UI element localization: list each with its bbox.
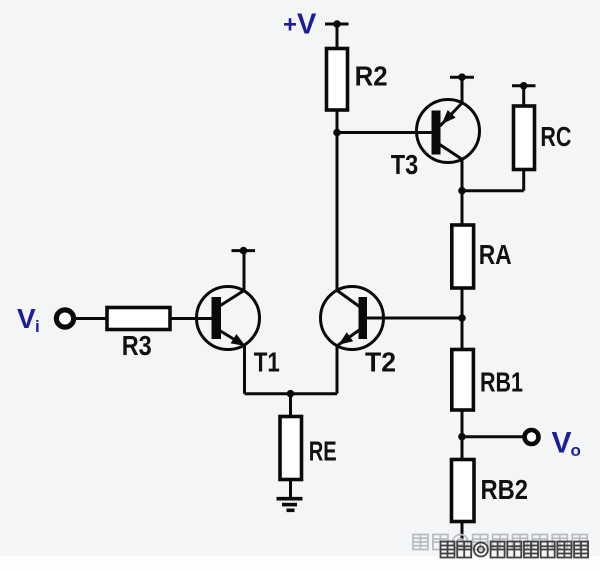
svg-text:V: V bbox=[552, 427, 572, 460]
wire RE bottom to ground bbox=[289, 480, 292, 499]
resistor R3 bbox=[107, 308, 170, 330]
svg-text:i: i bbox=[35, 317, 40, 336]
wire node E to RE top bbox=[289, 394, 292, 417]
wire RA bottom to node C bbox=[461, 288, 464, 318]
wire node A to T3 base bbox=[337, 131, 432, 134]
svg-text:RB2: RB2 bbox=[481, 474, 529, 505]
svg-text:R2: R2 bbox=[355, 61, 388, 92]
wire +V to R2 top bbox=[336, 24, 339, 49]
wire T3 emitter up to supply bbox=[461, 77, 464, 103]
wire RB2 bottom stub bbox=[461, 522, 464, 541]
wire RC bottom down bbox=[522, 170, 525, 191]
svg-text:V: V bbox=[297, 9, 317, 41]
wire emitter rail T1 to T2 bbox=[245, 392, 338, 395]
svg-text:o: o bbox=[571, 441, 581, 460]
svg-text:V: V bbox=[17, 303, 36, 334]
supply terminal bar above RC bbox=[512, 84, 536, 87]
node D junction dot (RB1 / RB2 / Vo) bbox=[458, 433, 466, 441]
transistor T2 (NPN, mirrored) bbox=[321, 287, 384, 350]
junction dot on T1 supply bar bbox=[240, 247, 248, 255]
svg-text:RA: RA bbox=[479, 239, 512, 270]
watermark front text (dark gray) bbox=[441, 542, 589, 558]
svg-text:T3: T3 bbox=[391, 149, 419, 180]
junction dot on +V bar bbox=[333, 20, 341, 28]
svg-text:RE: RE bbox=[309, 436, 337, 467]
svg-text:T2: T2 bbox=[365, 347, 396, 378]
supply terminal bar above T3 bbox=[450, 76, 474, 79]
wire Vi to R3 bbox=[76, 317, 107, 320]
svg-text:+: + bbox=[283, 12, 297, 39]
node A junction dot (R2 / T3 base / T2 collector) bbox=[333, 129, 341, 137]
wire node C to RB1 top bbox=[461, 318, 464, 350]
supply terminal bar above T1 bbox=[232, 249, 256, 252]
resistor RB1 bbox=[452, 350, 474, 411]
svg-text:T1: T1 bbox=[254, 346, 280, 377]
wire T3 collector down to node B bbox=[461, 159, 464, 190]
wire T2 emitter down bbox=[336, 346, 339, 394]
resistor RE bbox=[280, 417, 302, 480]
wire T1 emitter down bbox=[243, 346, 246, 394]
svg-text:RB1: RB1 bbox=[480, 366, 523, 397]
wire T1 collector up to supply bbox=[243, 251, 246, 291]
wire node D to Vo terminal bbox=[462, 435, 523, 438]
resistor R2 bbox=[327, 49, 348, 111]
wire R3 to T1 base bbox=[170, 317, 212, 320]
svg-text:RC: RC bbox=[540, 121, 571, 152]
Vi input terminal bbox=[56, 310, 73, 327]
resistor RB2 bbox=[452, 460, 475, 522]
wire T2 base to node C bbox=[367, 317, 462, 320]
wire R2 bottom to node A bbox=[336, 110, 339, 133]
wire RC bottom to node B bbox=[462, 189, 524, 192]
Vo output terminal bbox=[525, 430, 539, 444]
svg-text:R3: R3 bbox=[122, 330, 152, 361]
wire supply to RC top bbox=[522, 86, 525, 106]
ground bbox=[277, 499, 303, 511]
transistor T1 (NPN) bbox=[197, 287, 260, 350]
node B junction dot (T3 collector / RC / RA) bbox=[458, 187, 466, 195]
+V supply terminal bar bbox=[325, 23, 349, 26]
wire node A down to T2 collector bbox=[336, 133, 339, 291]
junction dot on T3 supply bar bbox=[458, 73, 466, 81]
resistor RC bbox=[514, 106, 535, 170]
watermark back text (light gray) bbox=[413, 535, 587, 550]
junction dot on RC supply bar bbox=[520, 82, 528, 90]
resistor RA bbox=[452, 225, 474, 288]
wire node B to RA top bbox=[461, 191, 464, 225]
wire RB1 bottom to node D bbox=[461, 410, 464, 437]
node C junction dot (RA / RB1 / T2 base) bbox=[458, 314, 466, 322]
transistor T3 (PNP) bbox=[417, 100, 480, 163]
wire node D to RB2 top bbox=[461, 437, 464, 460]
node E junction dot (emitter rail / RE) bbox=[287, 390, 295, 398]
